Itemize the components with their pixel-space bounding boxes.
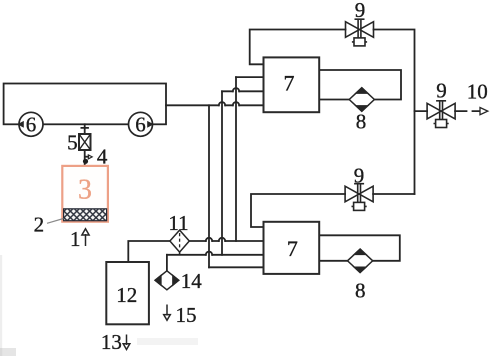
svg-text:9: 9 [354, 164, 365, 188]
svg-text:9: 9 [355, 0, 366, 22]
svg-text:1: 1 [70, 227, 81, 251]
svg-text:6: 6 [26, 112, 37, 136]
svg-text:5: 5 [67, 130, 78, 154]
svg-text:8: 8 [355, 279, 366, 303]
svg-text:12: 12 [116, 283, 137, 307]
svg-text:9: 9 [436, 79, 447, 103]
svg-text:11: 11 [168, 211, 188, 235]
svg-text:15: 15 [176, 303, 197, 327]
svg-text:10: 10 [467, 80, 488, 104]
svg-text:3: 3 [78, 175, 92, 206]
svg-text:14: 14 [181, 269, 203, 293]
svg-text:7: 7 [287, 236, 298, 261]
svg-text:8: 8 [356, 110, 367, 134]
svg-text:7: 7 [284, 70, 295, 95]
svg-text:4: 4 [97, 144, 108, 168]
svg-text:2: 2 [34, 213, 45, 237]
svg-text:13: 13 [101, 330, 122, 354]
svg-text:6: 6 [135, 112, 146, 136]
